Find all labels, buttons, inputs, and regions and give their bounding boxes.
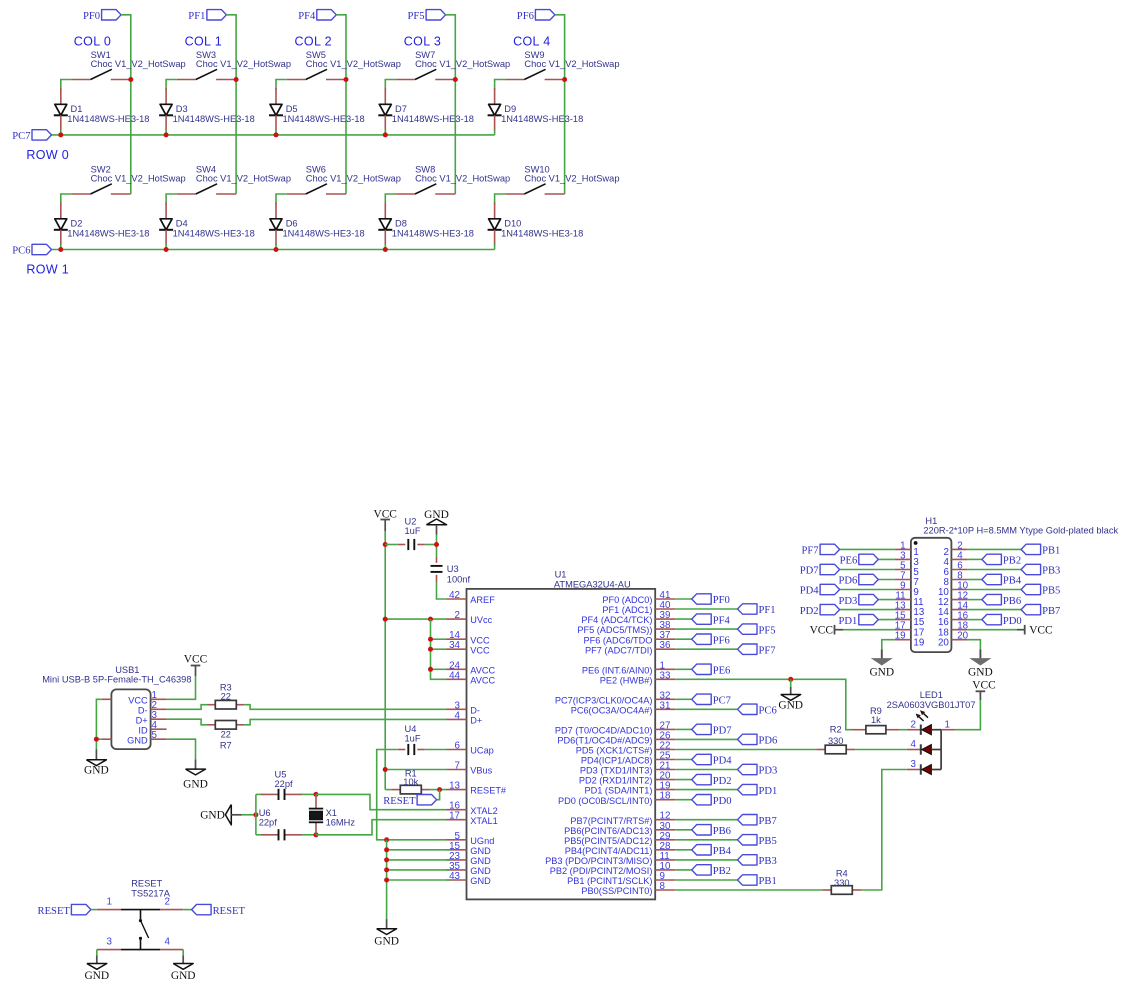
wire label PD3 to H1: [878, 599, 895, 601]
wire R4 up to LED pin 3: [861, 770, 907, 891]
svg-text:D+: D+: [136, 715, 148, 725]
svg-text:D+: D+: [470, 716, 482, 726]
junction pin34: [428, 647, 433, 652]
svg-text:22: 22: [221, 692, 231, 702]
U1 pin 9 PB1 (PCINT1/SCLK): [655, 879, 675, 881]
svg-text:U5: U5: [275, 769, 287, 779]
svg-text:PB2: PB2: [713, 866, 731, 877]
svg-text:RESET: RESET: [213, 906, 246, 917]
svg-text:UCap: UCap: [470, 746, 494, 756]
svg-text:PF4: PF4: [298, 11, 316, 22]
switch SW6: [287, 193, 306, 195]
svg-text:GND: GND: [374, 935, 399, 947]
svg-text:7: 7: [455, 761, 460, 772]
svg-text:Choc V1_V2_HotSwap: Choc V1_V2_HotSwap: [196, 59, 291, 69]
U1 pin 7 VBus: [447, 769, 467, 771]
svg-text:PD3: PD3: [838, 596, 857, 607]
U1 pin 44 AVCC: [447, 678, 467, 680]
svg-text:PF6 (ADC6/TDO: PF6 (ADC6/TDO: [583, 635, 652, 645]
wire D6 to row 1: [275, 244, 277, 250]
junction D1/ROW0: [58, 132, 63, 137]
wire label PD2 to H1: [840, 609, 895, 611]
switch SW5: [287, 79, 306, 81]
svg-text:PF7: PF7: [759, 645, 776, 656]
wire D7 to row 0: [384, 129, 386, 135]
hierarchical label PE6: [692, 664, 712, 674]
wire U1 to label PB6: [675, 829, 692, 831]
diode D4: [165, 203, 167, 219]
svg-text:RESET: RESET: [383, 796, 416, 807]
svg-text:PD4(ICP1/ADC8): PD4(ICP1/ADC8): [581, 756, 652, 766]
svg-text:GND: GND: [470, 846, 491, 856]
H1 pin 5: [895, 569, 911, 571]
wire RESET label to junction: [437, 790, 440, 800]
svg-text:Choc V1_V2_HotSwap: Choc V1_V2_HotSwap: [415, 59, 510, 69]
hierarchical label PD3 (H1 left): [859, 594, 879, 604]
hierarchical label PF0: [692, 594, 712, 604]
svg-text:U2: U2: [405, 516, 417, 526]
wire label PD1 to H1: [878, 619, 895, 621]
junction crystal GND: [253, 812, 258, 817]
svg-text:2: 2: [455, 610, 460, 621]
U1 pin 41 PF0 (ADC0): [655, 598, 675, 600]
U1 pin 39 PF4 (ADC4/TCK): [655, 618, 675, 620]
resistor R4 330: [831, 886, 852, 895]
svg-text:VCC: VCC: [373, 508, 396, 520]
power VCC (H1 pin 17): [834, 625, 836, 635]
switch SW10: [505, 193, 524, 195]
hierarchical label PF4 (column 2): [317, 10, 337, 20]
U1 pin 2 UVcc: [447, 618, 467, 620]
svg-text:VCC: VCC: [470, 635, 490, 645]
wire U1 to label PD1: [675, 789, 737, 791]
hierarchical label PD1: [738, 784, 758, 794]
hierarchical label PB3 (H1 right): [1021, 564, 1041, 574]
svg-text:PD2 (RXD1/INT2): PD2 (RXD1/INT2): [579, 776, 653, 786]
svg-text:VCC: VCC: [1029, 624, 1052, 636]
wire to VCC pin 34: [431, 648, 447, 650]
svg-text:100nf: 100nf: [447, 574, 471, 584]
svg-text:4: 4: [165, 937, 171, 948]
wire U1 to label PF1: [675, 608, 737, 610]
svg-text:VCC: VCC: [128, 695, 148, 705]
U1 pin 3 D-: [447, 708, 467, 710]
U1 pin 18 PD0 (OC0B/SCL/INT0): [655, 799, 675, 801]
svg-text:3: 3: [911, 759, 917, 770]
wire D- from USB to R3: [167, 705, 208, 710]
svg-text:ID: ID: [138, 725, 148, 735]
wire VCC rail to R1: [385, 789, 392, 791]
wire R2 to LED pin 4: [855, 749, 907, 751]
svg-text:PF7 (ADC7/TDI): PF7 (ADC7/TDI): [585, 645, 652, 655]
svg-text:PF5: PF5: [759, 625, 776, 636]
svg-text:1N4148WS-HE3-18: 1N4148WS-HE3-18: [173, 229, 255, 239]
hierarchical label PD0 (H1 right): [982, 614, 1002, 624]
svg-text:Choc V1_V2_HotSwap: Choc V1_V2_HotSwap: [306, 59, 401, 69]
svg-text:PD3: PD3: [759, 766, 778, 777]
wire U1 to label PD2: [675, 779, 692, 781]
svg-text:D8: D8: [395, 219, 407, 229]
hierarchical label PB5: [738, 835, 758, 845]
svg-text:PF4 (ADC4/TCK): PF4 (ADC4/TCK): [581, 615, 652, 625]
wire U1 to label PF4: [675, 618, 692, 620]
wire U1 to label PB1: [675, 879, 737, 881]
svg-text:AVCC: AVCC: [470, 665, 495, 675]
junction GND pin 15: [384, 847, 389, 852]
wire U2 left: [385, 544, 398, 546]
wire U1 to label PC6: [675, 708, 737, 710]
wire SW2 left to diode D2: [61, 194, 72, 204]
junction USB shield GND: [94, 737, 99, 742]
wire D2 to row 1: [60, 244, 62, 250]
U1 pin 37 PF6 (ADC6/TDO: [655, 638, 675, 640]
wire GND chain pin 43: [387, 879, 451, 881]
svg-text:PB2: PB2: [1003, 556, 1021, 567]
wire label PD6 to H1: [878, 579, 895, 581]
U1 pin 32 PC7(ICP3/CLK0/OC4A): [655, 698, 675, 700]
U1 pin 38 PF5 (ADC5/TMS)): [655, 628, 675, 630]
USB1 pin 5 GND: [151, 738, 167, 740]
junction SW3/column: [234, 77, 239, 82]
wire PB0 pin 8 to R4: [675, 889, 822, 891]
svg-text:13: 13: [449, 781, 460, 792]
svg-text:D6: D6: [286, 219, 298, 229]
U1 pin 30 PB6(PCINT6/ADC13): [655, 829, 675, 831]
H1 pin 18: [951, 629, 967, 631]
svg-text:PE6: PE6: [840, 556, 858, 567]
wire GND chain pin 35: [387, 869, 451, 871]
svg-text:PC6: PC6: [759, 706, 777, 717]
junction VCC/U2: [383, 542, 388, 547]
svg-text:U1: U1: [555, 569, 567, 579]
wire pin 4 to GND: [182, 950, 184, 956]
wire SW8 left to diode D8: [385, 194, 396, 204]
svg-text:PF7: PF7: [802, 546, 819, 557]
hierarchical label PF0 (column 0): [102, 10, 122, 20]
wire D4 to row 1: [165, 244, 167, 250]
U1 pin 21 PD3 (TXD1/INT3): [655, 769, 675, 771]
svg-text:PD3 (TXD1/INT3): PD3 (TXD1/INT3): [580, 766, 653, 776]
connector H1 body: [911, 538, 952, 652]
svg-text:1N4148WS-HE3-18: 1N4148WS-HE3-18: [501, 114, 583, 124]
svg-text:PC7(ICP3/CLK0/OC4A): PC7(ICP3/CLK0/OC4A): [555, 695, 653, 705]
svg-text:PB6: PB6: [1003, 596, 1021, 607]
ground GND (U1 bottom): [386, 919, 388, 929]
capacitor U2 pins: [398, 544, 406, 546]
LED element pin 3: [907, 769, 921, 771]
hierarchical label PB6: [692, 825, 712, 835]
wire ROW 1: [52, 249, 495, 251]
wire RESET left: [91, 909, 97, 911]
wire PE2 pin 33 to R9: [675, 679, 851, 729]
LED1 light arrows: [924, 714, 928, 718]
svg-text:PB2 (PDI/PCINT2/MOSI): PB2 (PDI/PCINT2/MOSI): [550, 866, 653, 876]
H1 pin 12: [951, 599, 967, 601]
svg-text:PB7(PCINT7/RTS#): PB7(PCINT7/RTS#): [570, 816, 652, 826]
wire H1 to label PB6: [967, 599, 982, 601]
hierarchical label PD7 (H1 left): [820, 564, 840, 574]
diode D1: [60, 88, 62, 104]
USB1 pin 3 D+: [151, 718, 167, 720]
RESET switch top bar: [121, 909, 160, 911]
svg-text:PB7: PB7: [1042, 606, 1060, 617]
RESET switch pin 3: [97, 949, 121, 951]
diode D6: [275, 203, 277, 219]
switch SW8: [396, 193, 415, 195]
svg-text:34: 34: [449, 640, 460, 651]
capacitor U3 pins: [436, 557, 438, 563]
wire GND chain pin 5: [387, 839, 447, 841]
svg-text:GND: GND: [968, 667, 993, 679]
svg-text:VCC: VCC: [184, 653, 207, 665]
svg-text:PB5: PB5: [759, 836, 777, 847]
junction D7/ROW0: [383, 132, 388, 137]
power VCC (LED1): [976, 690, 986, 692]
svg-text:VBus: VBus: [470, 766, 492, 776]
svg-text:COL 3: COL 3: [404, 34, 441, 48]
wire U1 to label PD6: [675, 738, 737, 740]
svg-text:RESET#: RESET#: [470, 786, 507, 796]
wire X1 bottom to XTAL1 pin 17: [316, 820, 447, 835]
power VCC (main rail): [380, 519, 390, 521]
svg-text:PF6: PF6: [713, 635, 730, 646]
svg-text:D1: D1: [71, 104, 83, 114]
svg-text:PD6: PD6: [838, 576, 857, 587]
svg-text:1k: 1k: [871, 715, 881, 725]
svg-text:330: 330: [828, 736, 844, 746]
ground GND (crystal, pointing left): [225, 805, 231, 825]
U1 pin 14 VCC: [447, 638, 467, 640]
svg-text:COL 1: COL 1: [185, 34, 222, 48]
resistor R4 pins: [822, 889, 830, 891]
capacitor U6 pins: [261, 834, 279, 836]
hierarchical label PB5 (H1 right): [1021, 584, 1041, 594]
resistor R3: [215, 700, 236, 709]
wire U1 to label PB3: [675, 859, 737, 861]
svg-text:330: 330: [834, 878, 850, 888]
junction GND pin 5: [384, 837, 389, 842]
U1 pin 42 AREF: [447, 598, 467, 600]
USB1 shield pin bottom: [102, 738, 112, 740]
junction VCC/VBus: [383, 767, 388, 772]
RESET switch actuator: [140, 910, 142, 919]
wire X1 top to XTAL2 pin 16: [316, 794, 447, 809]
svg-text:18: 18: [660, 791, 671, 802]
LED1 common anode bus: [940, 730, 942, 770]
svg-text:22pf: 22pf: [259, 818, 278, 828]
svg-text:PB5: PB5: [1042, 586, 1060, 597]
hierarchical label PC7: [692, 694, 712, 704]
wire U1 to label PD7: [675, 728, 692, 730]
H1 pin 8: [951, 579, 967, 581]
wire H1 to label PB4: [967, 579, 982, 581]
U1 pin 43 GND: [447, 879, 467, 881]
svg-text:VCC: VCC: [470, 645, 490, 655]
power VCC (USB): [191, 665, 201, 667]
svg-text:UGnd: UGnd: [470, 836, 494, 846]
svg-text:PB0(SS/PCINT0): PB0(SS/PCINT0): [581, 886, 652, 896]
svg-text:D2: D2: [71, 219, 83, 229]
svg-text:PD4: PD4: [800, 586, 820, 597]
svg-text:PB3: PB3: [1042, 566, 1060, 577]
hierarchical label PB7 (H1 right): [1021, 604, 1041, 614]
U1 pin 27 PD7 (T0/OC4D/ADC10): [655, 728, 675, 730]
RESET switch bottom bar: [121, 949, 160, 951]
hierarchical label PB6 (H1 right): [982, 594, 1002, 604]
svg-text:GND: GND: [171, 970, 196, 982]
ground GND (RESET pin 4): [182, 955, 184, 963]
ground GND (RESET pin 3): [96, 955, 98, 963]
svg-text:8: 8: [660, 881, 666, 892]
junction SW9/column: [562, 77, 567, 82]
wire SW10 left to diode D10: [495, 194, 506, 204]
capacitor U4 pins: [398, 749, 406, 751]
wire SW6 left to diode D6: [276, 194, 287, 204]
svg-text:PD0: PD0: [713, 796, 732, 807]
svg-text:43: 43: [449, 871, 460, 882]
wire label PD7 to H1: [840, 569, 895, 571]
svg-text:Choc V1_V2_HotSwap: Choc V1_V2_HotSwap: [91, 174, 186, 184]
junction GND pin 23: [384, 857, 389, 862]
wire U6 left: [256, 834, 261, 836]
svg-text:1N4148WS-HE3-18: 1N4148WS-HE3-18: [67, 229, 149, 239]
svg-text:PB1: PB1: [759, 876, 777, 887]
wire D5 to row 0: [275, 129, 277, 135]
svg-text:20: 20: [938, 637, 949, 648]
U1 pin 40 PF1 (ADC1): [655, 608, 675, 610]
wire R1 to RESET# pin 13: [430, 789, 447, 791]
wire R3 to U1 D-: [244, 705, 446, 710]
U1 pin 29 PB5(PCINT5/ADC12): [655, 839, 675, 841]
svg-text:R7: R7: [220, 740, 232, 750]
svg-text:PD7 (T0/OC4D/ADC10): PD7 (T0/OC4D/ADC10): [555, 726, 653, 736]
H1 pin 16: [951, 619, 967, 621]
U1 pin 33 PE2 (HWB#): [655, 678, 675, 680]
U1 pin 15 GND: [447, 849, 467, 851]
hierarchical label PD1 (H1 left): [859, 614, 879, 624]
svg-text:D9: D9: [504, 104, 516, 114]
wire SW7 left to diode D7: [385, 80, 396, 90]
svg-text:GND: GND: [200, 810, 225, 822]
resistor R2 330: [825, 745, 846, 754]
RESET switch pin 1: [97, 909, 121, 911]
svg-text:42: 42: [449, 590, 460, 601]
svg-text:Choc V1_V2_HotSwap: Choc V1_V2_HotSwap: [306, 174, 401, 184]
svg-text:44: 44: [449, 670, 460, 681]
hierarchical label PF4: [692, 614, 712, 624]
svg-text:D7: D7: [395, 104, 407, 114]
svg-text:D-: D-: [470, 705, 480, 715]
resistor R7 pins: [208, 724, 216, 726]
hierarchical label PF5 (column 3): [426, 10, 446, 20]
svg-text:U6: U6: [259, 808, 271, 818]
diode D2: [60, 203, 62, 219]
hierarchical label RESET: [417, 795, 437, 805]
hierarchical label PF6: [692, 634, 712, 644]
hierarchical label PD7: [692, 724, 712, 734]
H1 pin 13: [895, 609, 911, 611]
wire label PF7 to H1: [840, 548, 895, 550]
wire PF1 to column 1 vertical: [226, 15, 236, 194]
hierarchical label PD6: [738, 734, 758, 744]
capacitor U6 22pf: [278, 829, 280, 840]
hierarchical label PB4: [692, 845, 712, 855]
hierarchical label PB4 (H1 right): [982, 574, 1002, 584]
USB1 pin 2 D-: [151, 708, 167, 710]
svg-text:PD2: PD2: [800, 606, 819, 617]
junction D6/ROW1: [274, 247, 279, 252]
junction pin24: [428, 667, 433, 672]
hierarchical label PF6 (column 4): [535, 10, 555, 20]
hierarchical label PB1 (H1 right): [1021, 544, 1041, 554]
svg-text:Choc V1_V2_HotSwap: Choc V1_V2_HotSwap: [524, 59, 619, 69]
crystal X1 16MHz: [309, 808, 323, 810]
svg-text:1uF: 1uF: [405, 733, 421, 743]
svg-text:LED1: LED1: [920, 690, 943, 700]
resistor R2 pins: [816, 749, 825, 751]
svg-text:2: 2: [165, 896, 170, 907]
switch SW3: [177, 79, 196, 81]
RESET switch pin 2: [160, 909, 183, 911]
svg-text:PD0 (OC0B/SCL/INT0): PD0 (OC0B/SCL/INT0): [558, 796, 652, 806]
svg-text:PD0: PD0: [1003, 616, 1022, 627]
svg-text:2: 2: [911, 719, 916, 730]
H1 pin 11: [895, 599, 911, 601]
ground GND (H1 pin 20): [979, 649, 981, 658]
hierarchical label PD6 (H1 left): [859, 574, 879, 584]
U1 pin 10 PB2 (PDI/PCINT2/MOSI): [655, 869, 675, 871]
hierarchical label PC6: [738, 704, 758, 714]
U1 pin 16 XTAL2: [447, 809, 467, 811]
svg-text:H1: H1: [925, 516, 937, 526]
svg-text:USB1: USB1: [115, 665, 139, 675]
LED element pin 2: [907, 729, 921, 731]
wire H1 pin 19 to GND: [882, 640, 895, 650]
svg-text:GND: GND: [470, 876, 491, 886]
wire USB GND down: [167, 739, 196, 759]
hierarchical label PC6: [32, 244, 52, 254]
hierarchical label PF1: [738, 604, 758, 614]
svg-text:PE6 (INT.6/AIN0): PE6 (INT.6/AIN0): [582, 665, 652, 675]
wire U1 to label PF5: [675, 628, 737, 630]
svg-text:PD5 (XCK1/CTS#): PD5 (XCK1/CTS#): [576, 746, 653, 756]
svg-text:GND: GND: [127, 735, 148, 745]
svg-text:U3: U3: [447, 564, 459, 574]
wire H1 to label PB3: [967, 569, 1021, 571]
svg-text:R2: R2: [830, 725, 842, 735]
wire H1 pin 18 to VCC: [967, 629, 1017, 631]
wire pin 3 to GND: [96, 950, 98, 956]
resistor R7: [215, 721, 236, 730]
switch SW1: [72, 79, 91, 81]
junction D2/ROW1: [58, 247, 63, 252]
junction GND pin 43: [384, 878, 389, 883]
junction pin14: [428, 637, 433, 642]
svg-text:4: 4: [455, 710, 461, 721]
hierarchical label PB7: [738, 815, 758, 825]
wire U1 to label PF7: [675, 648, 737, 650]
hierarchical label PF7 (H1 left): [820, 544, 840, 554]
svg-text:GND: GND: [183, 779, 208, 791]
H1 pin 19: [895, 639, 911, 641]
svg-text:PD7: PD7: [713, 726, 732, 737]
svg-text:GND: GND: [84, 970, 109, 982]
junction X1 bottom: [314, 832, 319, 837]
wire U5 left: [256, 793, 261, 795]
svg-text:19: 19: [913, 637, 924, 648]
H1 pin 6: [951, 569, 967, 571]
svg-text:PF1 (ADC1): PF1 (ADC1): [602, 605, 652, 615]
